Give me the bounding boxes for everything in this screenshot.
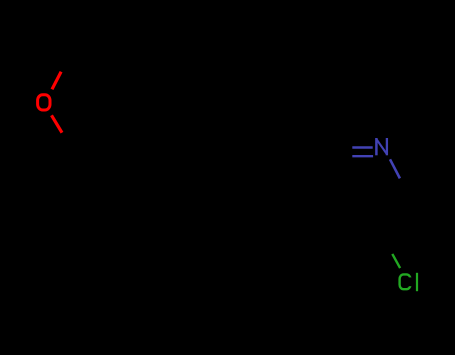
- atom Cl (chlorine label): [400, 273, 417, 291]
- bond O-CH3 (red half-bond, up-right): [52, 72, 61, 90]
- bond C=N outer line (blue): [352, 146, 372, 148]
- bond O-C(aryl) (red half-bond, down-right): [52, 115, 63, 132]
- gap of C glyph (opening on right side): [408, 277, 414, 286]
- bond C=N inner line (blue): [352, 155, 373, 157]
- atom O (methoxy oxygen): [38, 95, 50, 110]
- atom N (pyridine nitrogen): [376, 138, 387, 155]
- bond C-Cl (green half-bond): [392, 254, 400, 268]
- bond N-C (blue half-bond, down-right): [390, 159, 400, 178]
